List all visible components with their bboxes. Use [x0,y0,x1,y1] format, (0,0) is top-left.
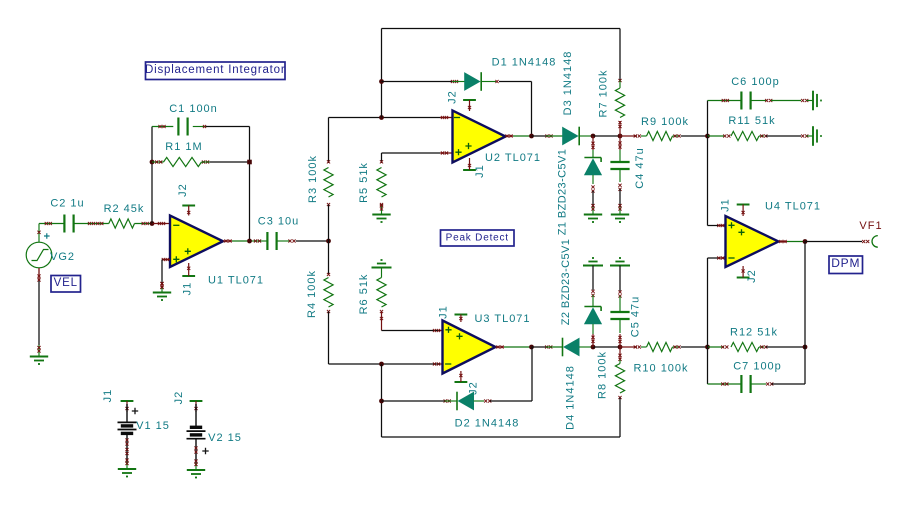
svg-text:R7 100k: R7 100k [598,70,610,118]
title box Displacement Integrator [146,62,286,80]
wire C1 to right feedback column [206,126,250,128]
resistor R6 [377,268,386,331]
svg-text:R4 100k: R4 100k [306,270,318,318]
op-amp U2 TL071 [453,111,506,163]
op-amp U4 TL071 [726,216,779,267]
capacitor C3 [252,232,296,250]
resistor R5 [377,160,386,214]
svg-text:J1: J1 [438,305,450,319]
pin U2 non-inverting input [440,151,453,154]
wire U4 feedback column [804,242,806,348]
wire right feedback column [249,127,251,242]
V1 plus mark [132,408,138,414]
wire R9 to summing node [681,135,708,137]
ground below V1 [125,459,128,462]
svg-text:Z2 BZD23-C5V1: Z2 BZD23-C5V1 [560,239,572,326]
pin U1 non-inverting input [162,258,170,261]
pin U3 output [496,345,505,348]
resistor R3 [324,160,333,206]
svg-text:C6 100p: C6 100p [731,76,780,88]
ground below VG2 [37,346,40,349]
wire R10 to U4 node [681,346,708,348]
node junction at R8/C5 [618,345,623,350]
svg-text:J2: J2 [177,183,189,197]
svg-text:C5 47u: C5 47u [630,296,642,337]
node junction inverting column top [379,115,384,120]
wire R5 to U2 non-inverting row [382,152,441,154]
pin U2 output [505,134,513,137]
node junction feedback right at R1 [247,160,252,165]
pin U1 inverting input [152,222,170,225]
wire R6 to U3 non-inverting row [382,330,441,332]
pin U4 output [779,240,788,243]
zener diode Z2 BZD23-C5V1 [583,258,603,347]
svg-text:R10 100k: R10 100k [633,363,688,375]
node junction U3 output [529,345,534,350]
svg-text:V2 15: V2 15 [208,432,242,444]
pin U2 inverting input [440,116,453,119]
node junction at R7/C4 [618,134,623,139]
wire U2 inverting row [329,117,441,119]
svg-text:D3 1N4148: D3 1N4148 [562,51,574,116]
node junction U2 output [529,134,534,139]
wire VG2 to ground [37,268,40,357]
resistor R7 feedback [615,79,624,136]
wire D1 anode [382,81,453,83]
jumper J2 at battery V2 [190,400,203,402]
svg-text:R6 51k: R6 51k [358,274,370,315]
jumper J2 power stub above U2 [463,99,476,101]
jumper J1 power stub below U1 [182,275,195,277]
wire U4 output to VF1 [805,240,869,243]
svg-text:R5 51k: R5 51k [358,162,370,203]
wire feedback column to top rail [381,29,383,118]
svg-text:J1: J1 [182,282,194,296]
diode D3 1N4148 [545,127,591,146]
node junction at D2 anode row [379,399,384,404]
battery V1 15 [118,404,137,469]
node junction U3 inverting [379,362,384,367]
wire U3 output junction to D4 [532,346,547,348]
wire C3 to R3/R4 node [296,240,329,242]
pin U3 non-inverting input [433,329,443,332]
node junction U1 output [247,239,252,244]
svg-text:U1 TL071: U1 TL071 [208,275,264,287]
ground below V2 [194,460,197,463]
svg-text:J2: J2 [447,90,459,104]
ground below C4 [618,204,621,207]
wire R3 column [328,118,330,164]
svg-text:J2: J2 [746,269,758,283]
zener diode Z1 BZD23-C5V1 [584,136,601,215]
wire R3 to node [328,205,330,242]
resistor R2 [109,219,152,228]
rotated ground at C6 [812,91,814,111]
node junction at Z1 [591,134,596,139]
wire R4 column [327,241,330,276]
resistor R1 [152,157,210,166]
wire R5 column top [381,153,383,163]
svg-text:V1 15: V1 15 [136,420,170,432]
svg-text:C7 100p: C7 100p [733,361,782,373]
wire R4 to U3 inverting row [327,310,330,364]
wire U3 output to junction [504,346,532,348]
ground at U1 non-inverting input [160,282,163,285]
svg-text:U2 TL071: U2 TL071 [485,152,541,164]
node junction at D1 anode [379,79,384,84]
svg-text:C1 100n: C1 100n [169,103,218,115]
wire U1 non-inverting to ground [160,260,163,293]
wire D4 junction to R8 junction [593,346,620,348]
node junction R10/R12/C7 [705,345,710,350]
pin U4 non-inverting input [717,224,725,227]
svg-text:J2: J2 [173,391,185,405]
diode D4 1N4148 [545,338,591,357]
ground below R5 [380,204,383,207]
svg-text:J1: J1 [720,198,732,212]
wire U2 output to junction [513,135,532,137]
V2 plus mark [202,448,208,454]
svg-text:C3 10u: C3 10u [258,216,299,228]
wire R10 node up to U4 inverting [708,258,720,347]
svg-text:D1 1N4148: D1 1N4148 [492,57,557,69]
wire top rail down to R7 [619,29,621,83]
svg-text:DPM: DPM [831,256,860,270]
diode D1 1N4148 [451,72,499,91]
ground above R6 [372,267,392,269]
op-amp U1 TL071 [170,216,223,268]
net label box DPM [829,256,863,274]
pin U4 inverting input [717,256,725,259]
battery V2 15 [187,404,206,470]
resistor R11 [708,131,814,140]
jumper J2 power stub below U3 [455,381,468,383]
svg-text:J1: J1 [102,389,114,403]
svg-text:D4 1N4148: D4 1N4148 [565,365,577,430]
capacitor C1 [152,118,206,136]
svg-text:R11 51k: R11 51k [728,115,775,127]
svg-text:Peak Detect: Peak Detect [446,232,509,243]
wire U3 inverting to D2 column [381,364,383,437]
wire C7 to feedback column [772,347,806,384]
resistor R12 [708,342,768,351]
svg-text:J1: J1 [474,164,486,178]
wire U1 output [232,240,252,242]
voltage source VG2 [26,224,52,268]
svg-text:R8 100k: R8 100k [597,351,609,399]
title box Peak Detect [441,230,515,246]
node junction at U1 inverting input [150,221,155,226]
wire summing node down to U4 non-inverting [708,136,720,226]
top rail wire [382,28,621,30]
diode D2 1N4148 [382,392,492,411]
VG2 plus mark [44,233,50,239]
pin U1 output [223,239,232,242]
svg-text:R1 1M: R1 1M [165,141,202,153]
node junction R9/R11/C6 [705,134,710,139]
resistor R10 [620,342,681,351]
capacitor C5 47u [610,258,630,347]
wire C6 branch up [707,101,709,137]
wire U1 feedback left column [151,127,153,224]
node junction R3/R4 [326,239,331,244]
resistor R9 [620,131,681,140]
jumper J1 power stub above U4 [737,204,750,206]
node junction at Z2 [591,345,596,350]
wire D1 cathode to U2 output column [499,81,532,83]
svg-text:Z1 BZD23-C5V1: Z1 BZD23-C5V1 [557,149,569,236]
wire VG2 to C2 [39,223,65,225]
wire U3 inverting row [329,363,441,365]
svg-text:R9 100k: R9 100k [641,116,689,128]
svg-text:C2 1u: C2 1u [50,198,84,210]
wire C7 branch down [707,347,709,384]
ground below Z1 [591,204,594,207]
capacitor C4 47u [610,136,629,215]
pin U3 inverting input [433,362,443,365]
svg-text:Displacement Integrator: Displacement Integrator [145,64,286,76]
jumper J1 power stub above U3 [455,314,468,316]
capacitor C7 100p [708,375,774,393]
wire R1 to right feedback column [210,161,250,163]
wire U2 output junction to D3 [532,135,547,137]
svg-text:C4 47u: C4 47u [634,147,646,188]
node junction feedback left at R1 [150,160,155,165]
node junction feedback at R12 [803,345,808,350]
wire U4 output to junction [787,241,805,243]
bottom rail wire [382,436,621,438]
jumper J2 power stub above U1 [182,205,195,207]
jumper J1 at battery V1 [121,400,134,402]
wire D3 junction to R7 junction [593,135,620,137]
jumper J1 power stub below U2 [463,169,476,171]
rotated ground at R11 [812,126,814,146]
wire R12 to feedback column [766,346,805,348]
svg-text:R2 45k: R2 45k [104,203,145,215]
svg-text:D2 1N4148: D2 1N4148 [455,418,520,430]
resistor R8 [615,347,624,437]
svg-text:R12 51k: R12 51k [730,327,778,339]
voltage pin VF1 probe symbol [872,236,878,248]
node junction U4 output [803,239,808,244]
svg-text:U3 TL071: U3 TL071 [474,313,530,325]
capacitor C6 100p [708,92,814,110]
svg-text:U4 TL071: U4 TL071 [765,201,821,213]
resistor R4 [324,278,333,308]
wire D2 cathode to U3 output column [490,400,532,402]
op-amp U3 TL071 [443,321,496,374]
net label box VEL [51,276,81,293]
svg-text:VF1: VF1 [859,220,882,232]
jumper J2 power stub below U4 [737,277,750,279]
svg-text:R3 100k: R3 100k [307,155,319,203]
capacitor C2 [45,215,109,233]
svg-text:VEL: VEL [54,277,78,289]
svg-text:VG2: VG2 [50,251,75,263]
